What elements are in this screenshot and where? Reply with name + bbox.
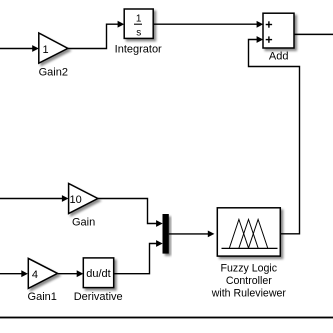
svg-text:s: s [136, 28, 141, 39]
derivative block [83, 258, 113, 288]
svg-text:Gain1: Gain1 [28, 291, 57, 303]
svg-text:with Ruleviewer: with Ruleviewer [211, 287, 287, 299]
svg-text:Gain2: Gain2 [39, 67, 68, 79]
svg-text:Fuzzy Logic: Fuzzy Logic [221, 262, 278, 274]
svg-text:Derivative: Derivative [74, 291, 123, 303]
wire Gain2 to Integrator [68, 21, 124, 49]
svg-text:Controller: Controller [226, 275, 272, 287]
svg-text:Add: Add [269, 51, 289, 63]
svg-text:10: 10 [69, 194, 81, 206]
wire Add output [295, 33, 333, 35]
svg-text:Integrator: Integrator [115, 44, 162, 56]
bottom border line [0, 317, 333, 319]
fuzzy logic controller block [217, 208, 280, 256]
gain block Gain2 [39, 33, 68, 63]
gain block Gain1 [28, 258, 57, 288]
wire Gain1 to Derivative [58, 270, 84, 277]
wire input to Gain1 [0, 270, 28, 277]
add block Add [263, 13, 294, 48]
wire input to Gain [0, 195, 69, 202]
svg-text:du/dt: du/dt [86, 268, 110, 280]
label Fuzzy Logic Controller with Ruleviewer [211, 262, 287, 299]
gain block Gain [69, 184, 98, 214]
wire Derivative to Mux input 2 [114, 240, 163, 274]
wire feedback FLC to Add input 2 [249, 36, 300, 234]
wire input to Gain2 [0, 45, 39, 52]
wire Gain to Mux input 1 [98, 199, 163, 227]
wire Integrator to Add [153, 21, 263, 28]
svg-text:4: 4 [32, 269, 38, 281]
wire Mux to FLC [169, 231, 215, 238]
svg-text:1: 1 [136, 14, 142, 25]
integrator block [124, 9, 153, 39]
svg-text:1: 1 [42, 44, 48, 56]
svg-text:Gain: Gain [72, 217, 95, 229]
mux block [163, 214, 169, 254]
